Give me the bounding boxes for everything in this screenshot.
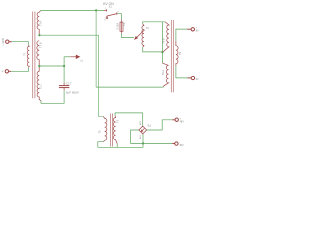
- svg-text:T6 A: T6 A: [161, 70, 165, 76]
- svg-text:L 230V: L 230V: [2, 38, 5, 46]
- capacitor C17: [59, 83, 69, 90]
- wire T6 loop top edge: [143, 22, 166, 24]
- wire T5 right bottom to rail: [116, 144, 118, 148]
- wire T5 left bottom return: [98, 142, 104, 148]
- transformer T1 winding A: [37, 11, 41, 35]
- svg-text:N: N: [1, 70, 4, 72]
- pin X2 N input (circle): [5, 70, 11, 73]
- pin X3 output (circle): [187, 28, 194, 31]
- pin X5 DC plus (circle): [172, 118, 178, 121]
- svg-text:T6 B: T6 B: [161, 38, 165, 44]
- svg-text:T6: T6: [146, 26, 150, 30]
- wire fuse to T6 wiper arrow: [122, 34, 134, 38]
- wire bridge AC2 to T5: [131, 130, 143, 143]
- fuse F1: [120, 19, 123, 33]
- wire T6 secondary top to pin: [176, 29, 187, 41]
- pin X6 DC minus (circle): [172, 142, 178, 145]
- T6 wiper arrow: [134, 30, 145, 40]
- wire bridge plus output: [147, 120, 173, 130]
- wire T6 loop right edge: [161, 22, 163, 63]
- wire to supply arrow: [64, 56, 70, 58]
- transformer T1 primary winding: [27, 45, 29, 67]
- svg-text:12: 12: [80, 59, 83, 62]
- transformer T5 left winding: [103, 117, 106, 142]
- transformer T6 winding A: [162, 63, 168, 86]
- supply arrow symbol: [70, 55, 80, 59]
- wire bridge minus output: [143, 142, 172, 144]
- svg-text:3: 3: [104, 19, 106, 21]
- svg-text:B1: B1: [148, 124, 152, 128]
- transformer T6 secondary winding: [176, 41, 178, 66]
- T5 core: [110, 114, 112, 147]
- wire C17 bottom to T1C bottom: [41, 90, 64, 103]
- wire T6 loop bottom edge: [143, 47, 163, 52]
- pin X4 output (circle): [187, 76, 194, 79]
- svg-text:T1: T1: [22, 52, 26, 56]
- wire common bottom rail: [98, 134, 143, 147]
- T1 core: [33, 12, 35, 99]
- wire HV net down from junction: [95, 10, 97, 87]
- svg-text:3.15A: 3.15A: [116, 23, 120, 30]
- junction B/C lead: [38, 65, 40, 67]
- wire L pin to T1 primary top: [12, 42, 29, 46]
- svg-text:T6: T6: [178, 51, 182, 55]
- wire tap T1 A/B to T5: [39, 35, 103, 116]
- svg-text:T1 A: T1 A: [39, 21, 43, 27]
- junction T6 loop: [161, 51, 163, 53]
- svg-text:48V: 48V: [180, 120, 185, 123]
- svg-text:C17: C17: [66, 81, 72, 85]
- wire HV rail bottom to T6A: [96, 85, 163, 88]
- wire C17 vertical node: [63, 57, 65, 83]
- junction DC minus: [142, 142, 144, 144]
- transformer T1 winding B: [37, 41, 39, 72]
- wire switch to fuse: [117, 14, 121, 20]
- transformer T6 variable primary winding: [142, 24, 144, 48]
- pin X1 L input (circle): [6, 40, 12, 43]
- svg-text:AC1: AC1: [139, 120, 142, 125]
- wire N pin to T1 primary bottom: [11, 68, 28, 72]
- junction C17 node: [63, 65, 65, 67]
- svg-text:T5: T5: [97, 130, 101, 134]
- switch S1: [104, 9, 117, 18]
- junction tap A/B: [38, 34, 40, 36]
- transformer T6 winding B: [163, 22, 169, 52]
- transformer T5 right winding: [113, 116, 117, 144]
- svg-text:T1 C: T1 C: [39, 84, 43, 90]
- wire T1 B/C junction to C17 node: [39, 65, 64, 67]
- wire top rail T1A to switch: [41, 9, 104, 11]
- svg-text:T5: T5: [115, 119, 119, 123]
- wire T5 right top to bridge AC1: [115, 113, 143, 126]
- svg-text:6V: 6V: [196, 78, 199, 81]
- svg-text:6V: 6V: [196, 29, 199, 32]
- svg-text:5uF 600V: 5uF 600V: [66, 91, 79, 95]
- svg-text:AC2: AC2: [139, 134, 142, 139]
- bridge rectifier B1: [139, 126, 147, 134]
- svg-text:48V: 48V: [179, 144, 184, 147]
- svg-text:S1: S1: [109, 5, 113, 9]
- svg-text:2: 2: [117, 11, 119, 13]
- T6 core: [171, 20, 173, 92]
- svg-text:T1 B: T1 B: [39, 42, 43, 48]
- wire T6 secondary bottom to pin: [176, 66, 187, 78]
- junction top rail: [95, 9, 97, 11]
- transformer T1 winding C: [37, 71, 41, 100]
